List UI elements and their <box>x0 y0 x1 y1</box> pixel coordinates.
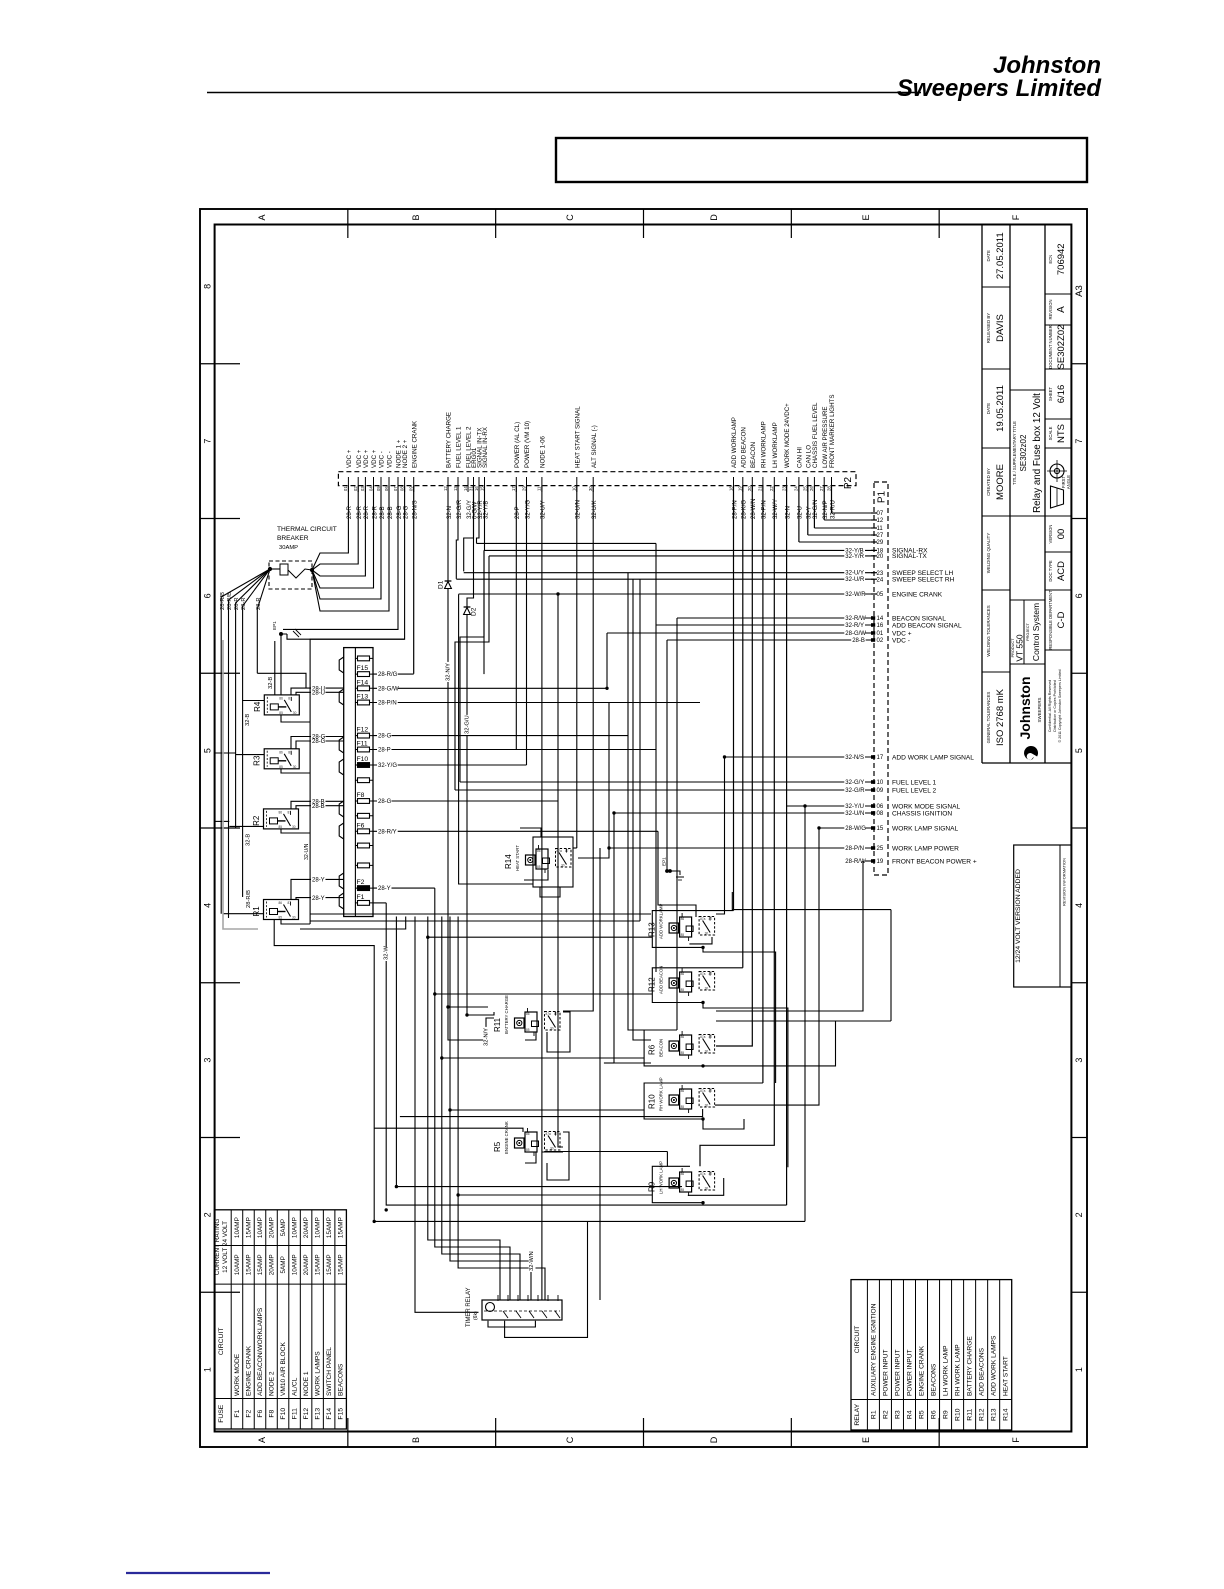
connector P1 <box>874 482 888 875</box>
wire label 32-W <box>383 947 390 961</box>
svg-text:23: 23 <box>877 571 884 577</box>
svg-text:32-W: 32-W <box>384 946 390 960</box>
svg-text:BATTERY CHARGE: BATTERY CHARGE <box>504 995 509 1034</box>
svg-text:25: 25 <box>877 846 884 852</box>
svg-text:17: 17 <box>877 755 884 761</box>
wire VDC <box>312 486 389 611</box>
relay R1 <box>264 900 299 920</box>
wire <box>450 917 531 1301</box>
svg-text:32-N/Y: 32-N/Y <box>484 1028 490 1046</box>
svg-text:15AMP: 15AMP <box>245 1254 252 1275</box>
wire <box>628 573 651 1030</box>
svg-text:12 VOLT 24 VOLT: 12 VOLT 24 VOLT <box>222 1221 229 1273</box>
wire to P1 <box>456 578 874 580</box>
svg-text:LH WORK LAMP: LH WORK LAMP <box>943 1345 950 1396</box>
svg-text:WORK MODE: WORK MODE <box>234 1353 241 1396</box>
svg-text:12/24 VOLT VERSION ADDED: 12/24 VOLT VERSION ADDED <box>1015 869 1022 963</box>
svg-text:30: 30 <box>292 916 296 920</box>
svg-text:32-U/N: 32-U/N <box>845 811 864 817</box>
wire <box>606 633 608 688</box>
wire 28-N/S engine crank to F15 <box>413 486 415 674</box>
svg-text:POWER INPUT: POWER INPUT <box>882 1349 889 1396</box>
svg-text:F: F <box>1011 214 1021 220</box>
wire <box>428 936 653 938</box>
wire <box>676 618 678 1030</box>
svg-text:AUXILIARY ENGINE IGNITION: AUXILIARY ENGINE IGNITION <box>870 1303 877 1396</box>
svg-text:R1: R1 <box>870 1410 877 1419</box>
svg-text:12: 12 <box>443 486 448 491</box>
wire VDC <box>312 486 348 570</box>
bottom blue rule <box>126 1572 270 1574</box>
P2 pin 11 NODE 1-06 <box>541 477 543 492</box>
svg-text:20AMP: 20AMP <box>269 1217 276 1238</box>
svg-text:EP1: EP1 <box>272 621 277 630</box>
svg-text:11: 11 <box>877 526 884 532</box>
svg-text:06: 06 <box>877 804 884 810</box>
wire <box>599 848 601 1300</box>
svg-text:C: C <box>565 1436 575 1443</box>
wire <box>435 888 510 1300</box>
svg-text:87: 87 <box>288 901 292 905</box>
svg-text:28-G: 28-G <box>378 799 392 805</box>
svg-text:BEACON: BEACON <box>750 442 757 468</box>
svg-text:LOW AIR PRESSURE: LOW AIR PRESSURE <box>822 406 829 468</box>
svg-text:08: 08 <box>877 811 884 817</box>
P2 pin 07 NODE 1 + <box>397 477 399 492</box>
svg-text:20: 20 <box>747 486 752 491</box>
svg-text:28-R: 28-R <box>256 597 262 610</box>
fuse F6 <box>355 830 373 832</box>
svg-text:BATTERY CHARGE: BATTERY CHARGE <box>967 1336 974 1396</box>
svg-text:8: 8 <box>203 284 213 289</box>
wire 28-R/B <box>229 569 271 918</box>
svg-text:RELEASED BY: RELEASED BY <box>986 313 991 344</box>
svg-text:F11: F11 <box>357 741 368 748</box>
wire 0-G/W sweep select <box>464 486 474 572</box>
svg-text:TIMER RELAY: TIMER RELAY <box>466 1287 472 1327</box>
svg-text:87a: 87a <box>700 1172 706 1176</box>
fuse F1 <box>355 902 373 904</box>
svg-text:F12: F12 <box>303 1408 310 1420</box>
svg-text:30: 30 <box>705 1050 709 1054</box>
wire <box>716 757 725 914</box>
svg-text:ENGINE CRANK: ENGINE CRANK <box>245 1345 252 1396</box>
svg-text:WORK MODE SIGNAL: WORK MODE SIGNAL <box>892 803 960 810</box>
wire from F15 <box>373 673 414 675</box>
wire <box>442 917 520 1301</box>
wire add worklamp <box>733 486 735 911</box>
svg-text:F1: F1 <box>357 894 365 901</box>
wire alt signal <box>563 486 593 1011</box>
svg-text:28-P/N: 28-P/N <box>845 846 864 852</box>
svg-text:RH WORKLAMP: RH WORKLAMP <box>761 421 768 468</box>
title block <box>981 225 983 764</box>
P2 pin 03 VDC + <box>364 477 366 492</box>
svg-text:28-P/N: 28-P/N <box>378 701 397 707</box>
svg-text:FUSE: FUSE <box>218 1404 225 1423</box>
svg-text:FRONT MARKER LIGHTS: FRONT MARKER LIGHTS <box>829 395 836 468</box>
wire <box>386 903 786 1205</box>
svg-text:32-U/R: 32-U/R <box>845 577 865 583</box>
wire <box>703 947 776 1083</box>
svg-text:BREAKER: BREAKER <box>277 535 309 542</box>
svg-text:28-G/W: 28-G/W <box>378 686 399 692</box>
P2 pin 04 VDC + <box>373 477 375 492</box>
svg-text:28-B: 28-B <box>852 638 865 644</box>
svg-text:30: 30 <box>293 765 297 769</box>
svg-text:R10: R10 <box>648 1094 657 1109</box>
wire VDC <box>312 486 365 576</box>
svg-text:6: 6 <box>203 593 213 598</box>
wire to P1 <box>464 572 874 574</box>
wire signal TX <box>477 486 480 544</box>
svg-text:19: 19 <box>738 486 743 491</box>
svg-text:5AMP: 5AMP <box>280 1256 287 1273</box>
wire <box>459 594 533 884</box>
svg-text:BEACONS: BEACONS <box>931 1363 938 1396</box>
svg-text:DOCUMENT NUMBER: DOCUMENT NUMBER <box>1048 325 1053 368</box>
svg-text:07: 07 <box>393 486 398 491</box>
svg-text:ADD BEACON SIGNAL: ADD BEACON SIGNAL <box>892 622 962 629</box>
svg-text:VDC -: VDC - <box>379 451 386 468</box>
svg-text:87: 87 <box>554 1132 558 1136</box>
svg-text:B: B <box>411 214 421 220</box>
svg-text:18: 18 <box>728 486 733 491</box>
svg-text:86: 86 <box>526 1012 530 1016</box>
wire <box>608 703 610 849</box>
wire feeds R3 <box>236 754 264 756</box>
svg-text:RH WORK LAMP: RH WORK LAMP <box>659 1077 664 1111</box>
wire R1 outputs 28-Y <box>291 879 344 899</box>
svg-text:10AMP: 10AMP <box>315 1217 322 1238</box>
wire <box>540 887 560 897</box>
svg-text:CIRCUIT: CIRCUIT <box>854 1326 861 1354</box>
wire VDC <box>312 486 358 570</box>
wire <box>477 542 657 544</box>
svg-text:AL/CL: AL/CL <box>292 1377 299 1396</box>
svg-text:86: 86 <box>279 810 283 814</box>
wire to P1 <box>787 805 874 807</box>
wire add beacon <box>742 486 744 968</box>
svg-text:706942: 706942 <box>1056 243 1067 275</box>
svg-text:87a: 87a <box>700 972 706 976</box>
svg-text:5: 5 <box>203 748 213 753</box>
svg-text:19: 19 <box>877 859 884 865</box>
svg-text:F8: F8 <box>357 792 365 799</box>
wire heat start <box>576 486 578 848</box>
svg-text:4: 4 <box>1074 903 1084 908</box>
svg-text:28-R/B: 28-R/B <box>227 592 233 610</box>
wire <box>505 1221 588 1337</box>
svg-text:DATE: DATE <box>986 250 991 261</box>
svg-text:10AMP: 10AMP <box>257 1217 264 1238</box>
P2 pin 17 POWER (AL CL) <box>515 477 517 492</box>
svg-text:RH WORK LAMP: RH WORK LAMP <box>955 1344 962 1396</box>
fuse F11 <box>355 749 373 751</box>
svg-text:HEAT START: HEAT START <box>515 845 520 871</box>
svg-text:02: 02 <box>353 486 358 491</box>
svg-text:15AMP: 15AMP <box>338 1254 345 1275</box>
svg-text:23: 23 <box>781 486 786 491</box>
svg-text:30: 30 <box>293 711 297 715</box>
svg-text:20AMP: 20AMP <box>303 1217 310 1238</box>
wire <box>890 910 892 1021</box>
svg-text:10AMP: 10AMP <box>292 1254 299 1275</box>
svg-text:13: 13 <box>453 486 458 491</box>
svg-text:28-Y: 28-Y <box>312 878 325 884</box>
svg-text:85: 85 <box>526 1148 530 1152</box>
wire work mode <box>786 486 788 1206</box>
svg-text:Confidential. All Rights Reser: Confidential. All Rights Reserved <box>1048 680 1052 732</box>
svg-text:1: 1 <box>203 1367 213 1372</box>
title block left column cells <box>982 224 1010 226</box>
P2 pin 24 CAN HI <box>798 477 800 492</box>
ground EP1 splice <box>279 632 283 636</box>
svg-text:15AMP: 15AMP <box>245 1217 252 1238</box>
svg-text:15AMP: 15AMP <box>326 1254 333 1275</box>
svg-text:F10: F10 <box>280 1408 287 1420</box>
svg-text:87: 87 <box>565 849 569 853</box>
svg-text:2: 2 <box>203 1212 213 1217</box>
svg-text:32-N/S: 32-N/S <box>845 755 864 761</box>
P2 pin 16 SIGNAL IN-TX <box>478 477 480 492</box>
svg-text:86: 86 <box>279 696 283 700</box>
svg-text:26: 26 <box>809 486 814 491</box>
svg-text:SE302Z02: SE302Z02 <box>1056 325 1067 370</box>
wire 28-P power <box>515 486 517 750</box>
svg-text:28-P: 28-P <box>378 748 391 754</box>
svg-text:30: 30 <box>705 1104 709 1108</box>
wire label 32-W/N <box>529 1252 536 1272</box>
svg-text:17: 17 <box>511 486 516 491</box>
wire <box>689 937 712 944</box>
svg-text:R2: R2 <box>882 1410 889 1419</box>
P2 pin 21 RH WORKLAMP <box>762 477 764 492</box>
P2 pin 25 CAN LO <box>807 477 809 492</box>
svg-text:R14: R14 <box>1003 1408 1010 1421</box>
relay circuit table <box>851 1280 1012 1430</box>
svg-text:HEAT START: HEAT START <box>1003 1356 1010 1396</box>
wire signal RX <box>484 486 486 551</box>
wire <box>458 1194 652 1196</box>
svg-text:FUEL LEVEL 1: FUEL LEVEL 1 <box>892 779 937 786</box>
wire <box>573 847 577 849</box>
svg-text:CURRENT RATING: CURRENT RATING <box>214 1219 221 1276</box>
svg-text:A: A <box>1056 306 1067 313</box>
fuse rating table <box>215 1210 347 1429</box>
svg-text:R5: R5 <box>493 1141 502 1152</box>
wire R4 bottom <box>281 715 310 723</box>
svg-text:ALT SIGNAL (-): ALT SIGNAL (-) <box>591 425 598 468</box>
fuse fuse <box>355 815 373 817</box>
wire <box>655 543 657 965</box>
svg-text:LH WORKLAMP: LH WORKLAMP <box>772 422 779 468</box>
svg-text:R9: R9 <box>943 1410 950 1419</box>
svg-text:ACD: ACD <box>1056 561 1067 581</box>
svg-text:WORK LAMP POWER: WORK LAMP POWER <box>892 845 959 852</box>
wire from F2 <box>373 887 435 889</box>
svg-text:VDC +: VDC + <box>892 630 912 637</box>
svg-text:SIGNAL IN-RX: SIGNAL IN-RX <box>482 427 489 468</box>
wire <box>415 917 479 1313</box>
svg-text:ADD WORKLAMP: ADD WORKLAMP <box>731 417 738 468</box>
wire from F6 <box>373 830 658 832</box>
svg-text:A3: A3 <box>1074 285 1085 297</box>
wire to left bundle <box>310 639 405 924</box>
svg-text:28-R: 28-R <box>234 597 240 610</box>
P2 pin 09 ENGINE CRANK <box>413 477 415 492</box>
svg-text:SCALE: SCALE <box>1048 426 1053 440</box>
svg-text:30: 30 <box>550 1027 554 1031</box>
P2 pin 19 ADD BEACON <box>742 477 744 492</box>
P2 pin 23 WORK MODE 24VDC+ <box>786 477 788 492</box>
svg-text:VDC -: VDC - <box>387 451 394 468</box>
wire feeds R4 <box>242 700 264 702</box>
svg-text:DAVIS: DAVIS <box>995 314 1006 342</box>
wire can lo <box>807 486 809 535</box>
svg-text:28-G/W: 28-G/W <box>845 631 866 637</box>
fuse F12 <box>355 735 373 737</box>
svg-text:SHEET: SHEET <box>1048 387 1053 401</box>
wire <box>300 917 406 930</box>
svg-text:R6: R6 <box>648 1044 657 1055</box>
svg-text:87a: 87a <box>700 917 706 921</box>
svg-text:07: 07 <box>877 511 884 517</box>
title block middle column <box>1010 389 1045 391</box>
P2 pin 12 BATTERY CHARGE <box>447 477 449 492</box>
svg-text:30: 30 <box>705 987 709 991</box>
svg-text:SWEEP SELECT RH: SWEEP SELECT RH <box>892 577 955 584</box>
svg-text:6/16: 6/16 <box>1056 385 1067 404</box>
fuse block housing <box>344 648 373 917</box>
svg-text:01: 01 <box>343 486 348 491</box>
svg-text:ADD WORK LAMP SIGNAL: ADD WORK LAMP SIGNAL <box>892 754 974 761</box>
svg-text:SE302z02: SE302z02 <box>1019 434 1028 471</box>
svg-text:86: 86 <box>681 917 685 921</box>
svg-text:85: 85 <box>681 1105 685 1109</box>
relay R2 <box>264 809 299 829</box>
svg-text:85: 85 <box>681 1188 685 1192</box>
svg-text:31: 31 <box>468 486 473 491</box>
svg-text:NODE 1: NODE 1 <box>303 1371 310 1396</box>
svg-text:F6: F6 <box>357 822 365 829</box>
svg-text:32-W/N: 32-W/N <box>529 1251 535 1271</box>
P2 pin 28 FRONT MARKER LIGHTS <box>831 477 833 492</box>
svg-text:32-U/Y: 32-U/Y <box>845 571 864 577</box>
wire <box>274 919 805 1221</box>
svg-text:87a: 87a <box>700 1035 706 1039</box>
svg-text:28: 28 <box>826 486 831 491</box>
svg-text:05: 05 <box>376 486 381 491</box>
wire from F12 <box>373 735 628 737</box>
fuse F15 <box>355 673 373 675</box>
svg-text:28-B: 28-B <box>312 804 325 810</box>
svg-text:30: 30 <box>588 486 593 491</box>
svg-text:86: 86 <box>526 1132 530 1136</box>
svg-text:25: 25 <box>803 486 808 491</box>
wire from F14 <box>373 687 607 689</box>
wire <box>658 831 696 917</box>
svg-text:28-R: 28-R <box>241 597 247 610</box>
wire <box>703 1003 788 1168</box>
svg-text:32-G/U: 32-G/U <box>465 715 471 734</box>
svg-text:32-B: 32-B <box>246 834 252 846</box>
P2 pin 30 ALT SIGNAL (-) <box>592 477 594 492</box>
wire <box>542 1151 563 1153</box>
wire to P1 <box>725 756 875 758</box>
svg-text:32-R/W: 32-R/W <box>845 616 866 622</box>
svg-text:27: 27 <box>819 486 824 491</box>
fuse block connector bumps <box>339 657 344 673</box>
wire rh worklamp <box>762 486 764 1083</box>
svg-text:ADD WORK LAMPS: ADD WORK LAMPS <box>991 1335 998 1396</box>
svg-text:NTS: NTS <box>1056 424 1067 443</box>
wire <box>633 579 651 1040</box>
P2 pin 18 ADD WORKLAMP <box>733 477 735 492</box>
svg-text:08: 08 <box>399 486 404 491</box>
svg-text:ENGINE CRANK: ENGINE CRANK <box>919 1345 926 1396</box>
svg-text:EP1: EP1 <box>662 857 667 866</box>
svg-text:4: 4 <box>203 903 213 908</box>
svg-text:15AMP: 15AMP <box>315 1254 322 1275</box>
svg-text:12: 12 <box>877 518 884 524</box>
svg-text:F13: F13 <box>357 694 369 701</box>
svg-text:85: 85 <box>279 825 283 829</box>
svg-text:11: 11 <box>537 486 542 491</box>
wire to P1 <box>824 519 874 521</box>
svg-text:B: B <box>411 1437 421 1443</box>
wire 32-G/R sweep select <box>456 486 458 579</box>
wire feeds R2 <box>229 825 263 827</box>
svg-text:28-R/B: 28-R/B <box>220 592 226 610</box>
svg-text:PROJECT: PROJECT <box>1026 622 1030 640</box>
wire <box>604 1062 614 1064</box>
relay R3 <box>264 749 299 769</box>
svg-text:F6: F6 <box>257 1410 264 1418</box>
svg-text:A: A <box>257 1437 267 1443</box>
svg-text:D: D <box>709 1436 719 1443</box>
svg-text:85: 85 <box>537 865 541 869</box>
svg-text:5AMP: 5AMP <box>280 1219 287 1236</box>
svg-text:R4: R4 <box>253 701 262 712</box>
svg-text:BEACON SIGNAL: BEACON SIGNAL <box>892 615 946 622</box>
empty header box <box>556 138 1087 182</box>
svg-text:R12: R12 <box>979 1408 986 1421</box>
svg-text:87: 87 <box>709 917 713 921</box>
svg-text:CHASSIS IGNITION: CHASSIS IGNITION <box>892 810 952 817</box>
wire EP1 to R4 <box>280 634 282 695</box>
svg-text:THERMAL CIRCUIT: THERMAL CIRCUIT <box>277 526 337 533</box>
wire to P1 <box>808 534 874 536</box>
wire <box>558 594 563 1147</box>
svg-text:R2: R2 <box>252 815 261 826</box>
svg-text:86: 86 <box>681 1172 685 1176</box>
svg-text:28-U: 28-U <box>312 691 325 697</box>
svg-text:00: 00 <box>1056 529 1067 540</box>
svg-text:19.05.2011: 19.05.2011 <box>995 385 1006 432</box>
wire 28-R to R4 supply <box>257 673 306 688</box>
svg-text:3: 3 <box>1074 1058 1084 1063</box>
svg-text:10AMP: 10AMP <box>234 1217 241 1238</box>
svg-text:24: 24 <box>794 486 799 491</box>
svg-text:30: 30 <box>705 1187 709 1191</box>
P2 pin 22 LH WORKLAMP <box>773 477 775 492</box>
wire <box>716 861 863 1011</box>
svg-text:87a: 87a <box>700 1089 706 1093</box>
diode D1 <box>447 486 449 581</box>
svg-text:86: 86 <box>279 750 283 754</box>
svg-text:87: 87 <box>554 1012 558 1016</box>
